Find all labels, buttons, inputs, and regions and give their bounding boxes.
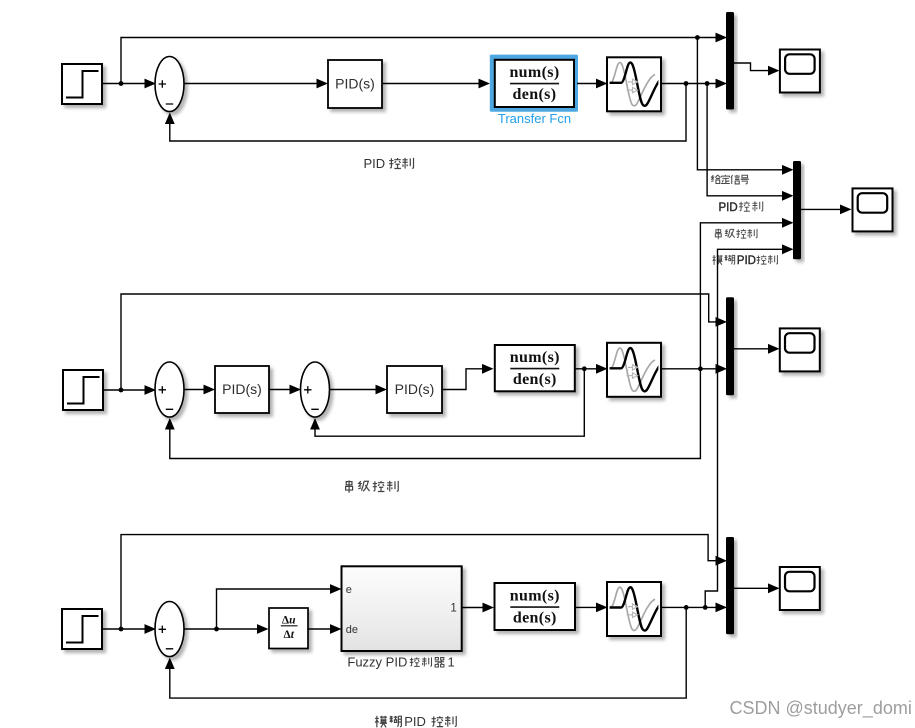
transport delay block (bottom): [579, 582, 666, 636]
derivative block Du/Dt: [269, 608, 308, 649]
PID controller block PID(s) (middle outer): [215, 366, 269, 413]
node feedback tap (bottom): [684, 605, 689, 610]
wire error branch to Fuzzy input e: [217, 589, 340, 629]
transport delay block (top): [579, 57, 666, 111]
scope Scope2: [853, 188, 893, 231]
label 给定信号 (Mux2 input 1): [711, 175, 749, 184]
transport delay block (middle): [579, 343, 666, 397]
wire Mux3 to Scope3: [734, 348, 777, 350]
svg-text:PID: PID: [719, 202, 738, 214]
label 模糊PID控制 (Mux2 input 4): [713, 255, 778, 267]
scope Scope3: [780, 328, 820, 371]
transfer function block num(s)/den(s) (bottom): [495, 583, 576, 630]
wire Mux1 to Scope1: [734, 63, 777, 71]
sum block Sum2 (middle inner, +/-): [301, 362, 330, 417]
svg-text:PID: PID: [364, 156, 386, 171]
svg-text:Fuzzy PID: Fuzzy PID: [347, 655, 407, 670]
svg-text:de: de: [346, 624, 358, 636]
wire feedback to Sum minus input (top): [170, 84, 686, 142]
svg-text:den(s): den(s): [513, 371, 557, 388]
wire feedback to Sum minus input (bottom): [170, 607, 686, 698]
label 模糊PID控制 (bottom section title): [375, 714, 456, 728]
svg-text:CSDN @studyer_domi: CSDN @studyer_domi: [730, 698, 912, 719]
subsystem block Fuzzy PID controller: [342, 566, 462, 651]
label PID控制 (top section title): [364, 156, 414, 171]
wire Transport Delay to Mux3 input 2: [661, 368, 726, 370]
mux Mux4 (bottom): [726, 537, 734, 634]
sum block Sum1 (middle outer, +/-): [155, 362, 184, 417]
svg-text:Δu: Δu: [282, 614, 296, 626]
wire Fuzzy output to Transfer Fcn (bottom): [462, 607, 492, 609]
svg-text:num(s): num(s): [509, 64, 559, 81]
svg-text:PID(s): PID(s): [395, 381, 435, 397]
step source Step (middle): [63, 370, 103, 410]
svg-text:num(s): num(s): [510, 588, 560, 605]
wire Mux2 to Scope2: [801, 208, 849, 210]
label Fuzzy PID控制器1 (subsystem name): [347, 655, 454, 670]
scope Scope4: [780, 567, 820, 610]
wire Sum to derivative block: [184, 628, 266, 630]
wire Mux4 to Scope4: [734, 587, 777, 589]
wire branch up to Mux2 input 4 (fuzzy result): [705, 249, 791, 607]
wire Step to Sum1 (middle): [104, 389, 154, 391]
sum block Sum (top, +/-): [155, 57, 184, 112]
node branch to Mux2 input 2 (PID result): [705, 81, 710, 86]
wire middle reference rail to Mux3 input 1: [121, 294, 726, 390]
wire Transfer Fcn to Transport Delay (middle): [575, 368, 605, 370]
mux Mux3 (middle): [726, 297, 734, 395]
wire branch up to Mux2 input 3: [700, 223, 791, 369]
node branch of reference rail down to Mux2 input 1 (given signal): [695, 35, 700, 40]
node inner feedback tap (middle): [582, 366, 587, 371]
wire Step to Sum (bottom): [103, 628, 154, 630]
transfer function block Transfer Fcn (selected, blue highlight): [490, 55, 578, 127]
wire Transfer Fcn to Transport Delay (bottom): [575, 606, 605, 608]
node junction after step (bottom): [119, 627, 124, 632]
wire bottom reference rail to Mux4 input 1: [121, 535, 726, 629]
transfer function block num(s)/den(s) (middle): [495, 345, 575, 391]
sum block Sum (bottom, +/-): [155, 602, 184, 657]
svg-text:num(s): num(s): [510, 349, 560, 366]
wire Sum2 to PID2 (middle): [330, 389, 385, 391]
wire PID to Transfer Fcn: [382, 83, 487, 85]
mux Mux1 (top): [726, 12, 734, 110]
wire Transport Delay to Mux4 input 2: [661, 606, 726, 608]
label 串级控制 (middle section title): [346, 480, 399, 492]
svg-text:PID(s): PID(s): [222, 381, 262, 397]
label 串级控制 (Mux2 input 3): [715, 229, 757, 240]
wire Transport Delay to Mux1 input 2: [661, 83, 726, 85]
svg-text:PID: PID: [404, 714, 426, 728]
node output tap (middle): [698, 366, 703, 371]
node branch to Mux2 input 4 tap: [703, 605, 708, 610]
node junction after step: [119, 81, 124, 86]
svg-text:1: 1: [448, 655, 455, 670]
wire Transfer Fcn to Transport Delay: [577, 83, 605, 85]
wire PID2 to Transfer Fcn (middle, jog up): [442, 369, 491, 390]
svg-text:PID: PID: [737, 255, 756, 267]
wire outer feedback to Sum1 minus input (middle): [170, 369, 701, 459]
node junction after step (middle): [119, 388, 124, 393]
wire Sum to PID: [184, 83, 325, 85]
svg-text:den(s): den(s): [513, 86, 557, 103]
wire Step to Sum: [103, 83, 154, 85]
wire PID1 to Sum2 (middle): [269, 389, 298, 391]
svg-text:den(s): den(s): [513, 610, 557, 627]
svg-text:e: e: [346, 584, 352, 596]
PID controller block PID(s) (top): [328, 60, 382, 108]
wire inner feedback to Sum2 minus input: [315, 369, 584, 436]
wire branch down to Mux2 input 2: [707, 84, 791, 196]
wire Sum1 to PID1 (middle): [184, 389, 212, 391]
mux Mux2 (4 inputs): [793, 161, 801, 259]
step source Step (top): [62, 64, 102, 104]
svg-text:Transfer Fcn: Transfer Fcn: [498, 111, 571, 126]
wire derivative to Fuzzy input de: [308, 628, 339, 630]
step source Step (bottom): [62, 609, 102, 649]
node error tap (bottom): [214, 627, 219, 632]
PID controller block PID(s) (middle inner): [387, 366, 442, 413]
svg-text:Δt: Δt: [283, 629, 294, 641]
svg-text:1: 1: [450, 602, 456, 614]
wire top reference rail from step junction to Mux1 input 1: [121, 38, 726, 84]
label PID控制 (Mux2 input 2): [719, 201, 763, 213]
svg-text:PID(s): PID(s): [335, 76, 375, 92]
scope Scope1: [780, 50, 820, 93]
node feedback tap (top): [684, 81, 689, 86]
